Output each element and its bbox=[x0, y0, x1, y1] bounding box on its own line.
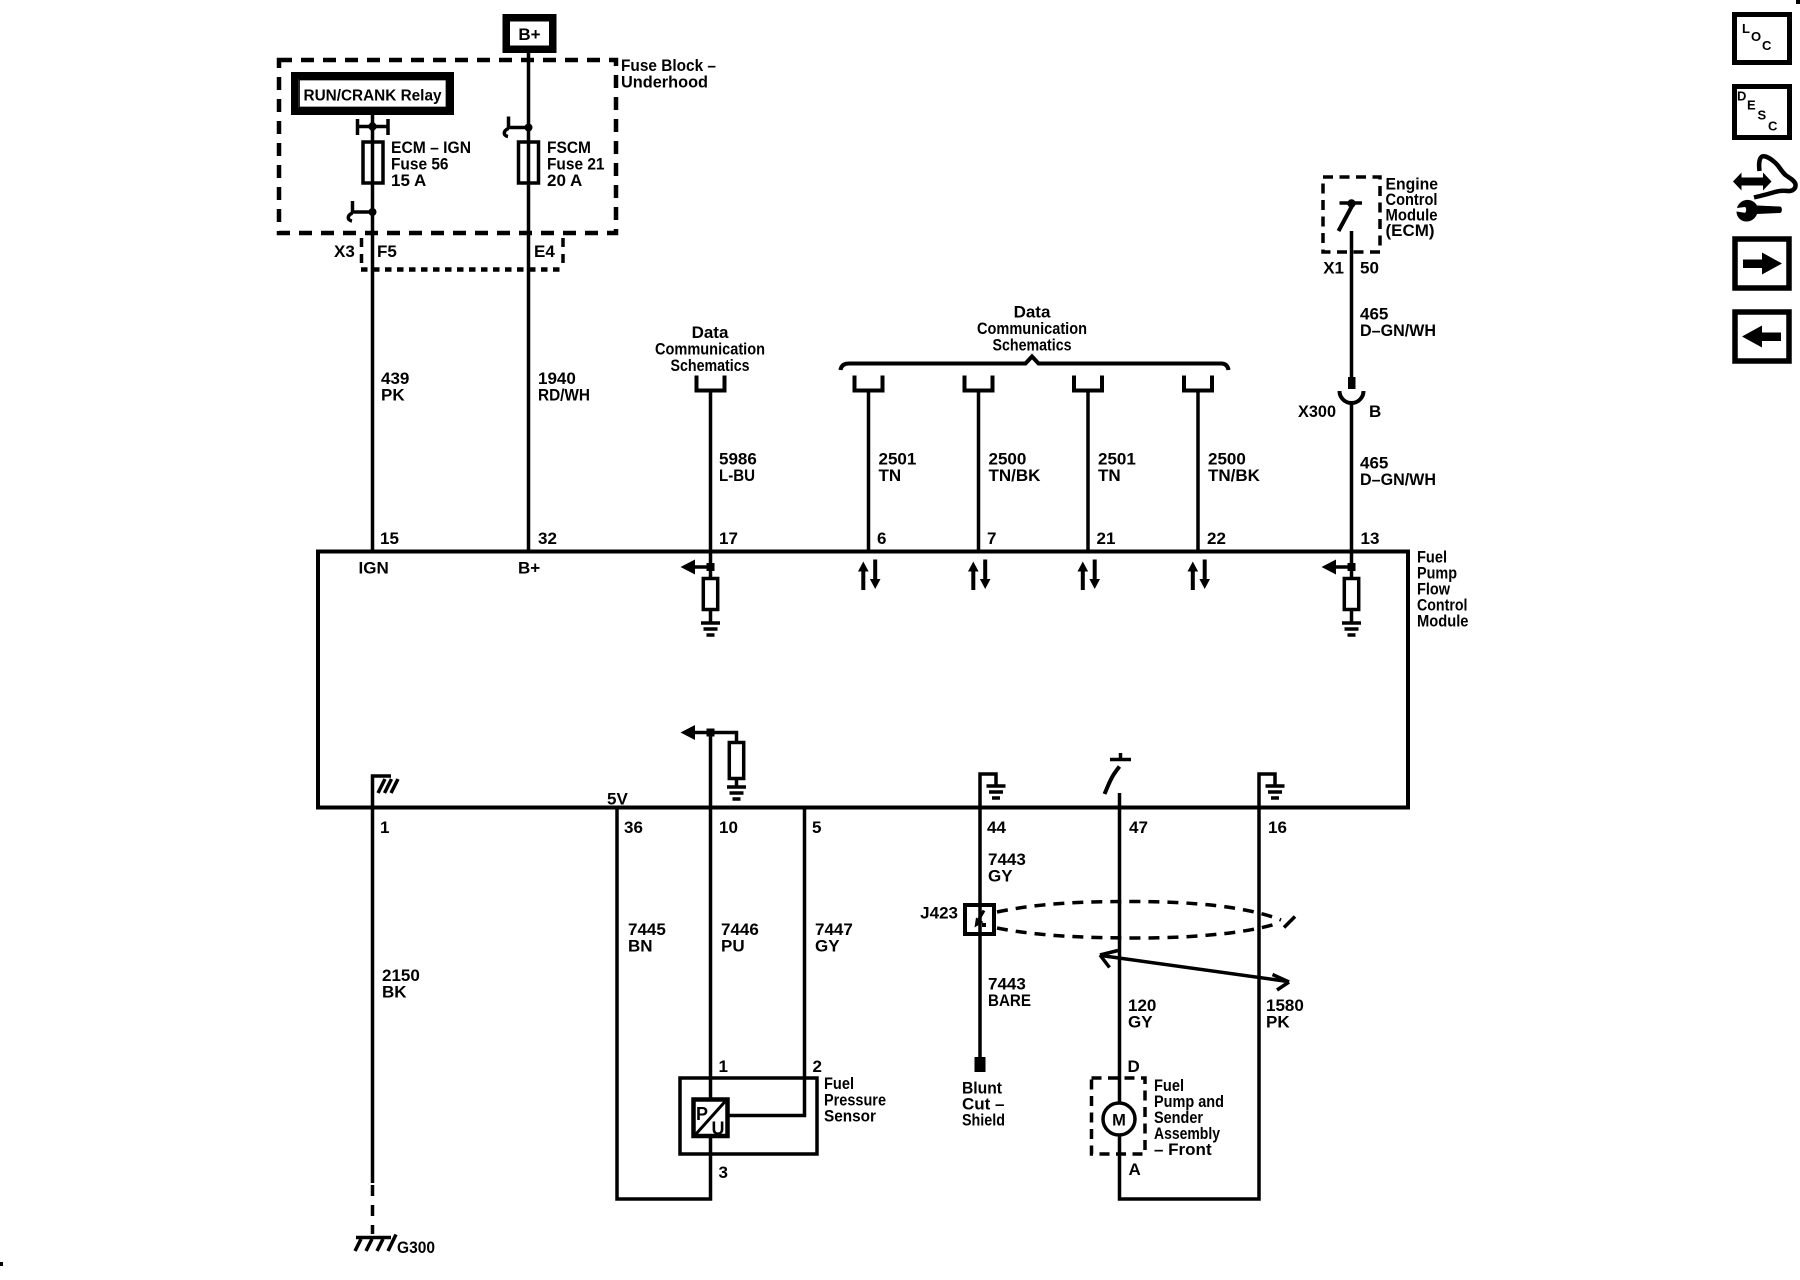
svg-text:GY: GY bbox=[815, 937, 840, 956]
svg-text:X300: X300 bbox=[1298, 402, 1336, 421]
svg-text:U: U bbox=[712, 1119, 725, 1139]
svg-text:X3: X3 bbox=[334, 242, 355, 261]
svg-text:M: M bbox=[1112, 1112, 1126, 1130]
svg-text:D: D bbox=[1128, 1057, 1140, 1076]
svg-text:21: 21 bbox=[1097, 529, 1116, 548]
svg-text:22: 22 bbox=[1207, 529, 1226, 548]
svg-text:D–GN/WH: D–GN/WH bbox=[1360, 470, 1436, 489]
svg-text:1: 1 bbox=[719, 1057, 728, 1076]
svg-text:17: 17 bbox=[719, 529, 738, 548]
svg-text:6: 6 bbox=[877, 529, 886, 548]
svg-text:Underhood: Underhood bbox=[621, 73, 708, 92]
svg-text:5: 5 bbox=[812, 818, 821, 837]
svg-text:O: O bbox=[1751, 29, 1761, 44]
svg-text:G300: G300 bbox=[397, 1238, 435, 1257]
svg-text:Schematics: Schematics bbox=[671, 356, 750, 375]
svg-text:P: P bbox=[696, 1104, 708, 1124]
svg-text:5V: 5V bbox=[607, 790, 628, 809]
svg-text:15: 15 bbox=[380, 529, 399, 548]
svg-text:D–GN/WH: D–GN/WH bbox=[1360, 321, 1436, 340]
svg-text:Module: Module bbox=[1417, 612, 1469, 631]
svg-text:F5: F5 bbox=[377, 242, 397, 261]
svg-text:L-BU: L-BU bbox=[719, 466, 755, 485]
svg-text:RD/WH: RD/WH bbox=[538, 386, 590, 405]
svg-text:GY: GY bbox=[1128, 1013, 1153, 1032]
svg-text:TN: TN bbox=[1098, 466, 1121, 485]
svg-text:PK: PK bbox=[381, 386, 405, 405]
svg-text:(ECM): (ECM) bbox=[1386, 221, 1435, 240]
svg-text:C: C bbox=[1768, 119, 1778, 134]
svg-text:10: 10 bbox=[719, 818, 738, 837]
svg-text:B: B bbox=[1369, 402, 1381, 421]
svg-text:3: 3 bbox=[719, 1163, 728, 1182]
svg-text:50: 50 bbox=[1360, 259, 1379, 278]
svg-text:BN: BN bbox=[628, 937, 653, 956]
svg-text:16: 16 bbox=[1268, 818, 1287, 837]
svg-text:X1: X1 bbox=[1323, 259, 1344, 278]
svg-text:BK: BK bbox=[382, 983, 407, 1002]
svg-text:S: S bbox=[1758, 108, 1767, 123]
svg-text:BARE: BARE bbox=[988, 991, 1031, 1010]
svg-text:GY: GY bbox=[988, 867, 1013, 886]
svg-text:Shield: Shield bbox=[962, 1111, 1005, 1130]
svg-text:J423: J423 bbox=[920, 904, 958, 923]
svg-text:15 A: 15 A bbox=[391, 171, 426, 190]
svg-text:32: 32 bbox=[538, 529, 557, 548]
svg-text:C: C bbox=[1762, 38, 1772, 53]
svg-text:TN: TN bbox=[879, 466, 902, 485]
svg-text:B+: B+ bbox=[518, 25, 540, 44]
svg-text:47: 47 bbox=[1129, 818, 1148, 837]
svg-text:Schematics: Schematics bbox=[993, 336, 1072, 355]
svg-text:20 A: 20 A bbox=[547, 171, 582, 190]
svg-text:D: D bbox=[1737, 89, 1746, 104]
svg-text:1: 1 bbox=[380, 818, 389, 837]
svg-text:PK: PK bbox=[1266, 1013, 1290, 1032]
svg-text:PU: PU bbox=[721, 937, 745, 956]
svg-text:B+: B+ bbox=[518, 559, 540, 578]
svg-text:13: 13 bbox=[1361, 529, 1380, 548]
svg-text:36: 36 bbox=[624, 818, 643, 837]
svg-text:E: E bbox=[1747, 98, 1756, 113]
svg-text:A: A bbox=[1129, 1160, 1141, 1179]
svg-text:L: L bbox=[1742, 21, 1750, 36]
svg-text:E4: E4 bbox=[534, 242, 555, 261]
svg-text:– Front: – Front bbox=[1154, 1140, 1212, 1159]
svg-text:TN/BK: TN/BK bbox=[989, 466, 1042, 485]
svg-text:7: 7 bbox=[987, 529, 996, 548]
svg-text:Sensor: Sensor bbox=[824, 1107, 876, 1126]
svg-text:IGN: IGN bbox=[359, 559, 389, 578]
svg-text:RUN/CRANK Relay: RUN/CRANK Relay bbox=[304, 88, 442, 105]
svg-text:TN/BK: TN/BK bbox=[1208, 466, 1261, 485]
svg-text:44: 44 bbox=[987, 818, 1006, 837]
svg-text:2: 2 bbox=[813, 1057, 822, 1076]
